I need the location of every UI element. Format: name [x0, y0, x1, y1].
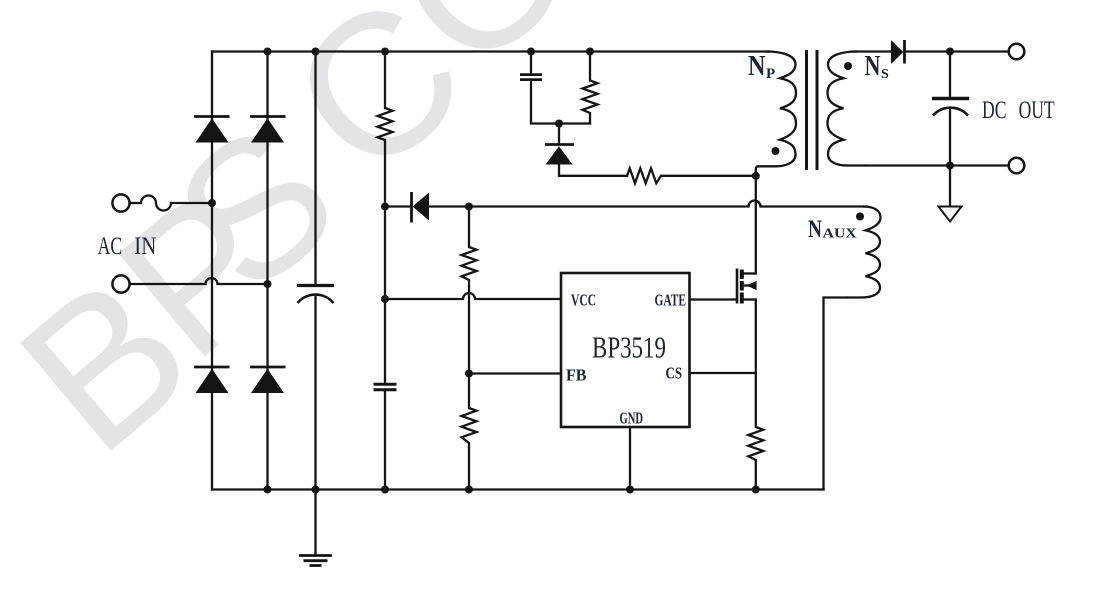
junction DC minus / output cap: [946, 162, 954, 170]
wire output cap lower: [949, 110, 951, 166]
wire bulk cap branch lower: [314, 297, 316, 490]
svg-text:IN: IN: [134, 233, 156, 260]
transformer primary winding Np: [756, 52, 796, 176]
phase dot aux: [856, 213, 864, 221]
wire bottom rail: [212, 488, 824, 490]
wire GATE line: [690, 298, 738, 300]
svg-text:N: N: [748, 51, 766, 82]
svg-text:DC: DC: [982, 97, 1007, 124]
svg-text:AC: AC: [98, 233, 123, 260]
wire CS line: [690, 372, 756, 374]
junction node FB: [465, 370, 473, 378]
junction node VCC rect anode: [381, 203, 389, 211]
wire aux bottom: [824, 298, 847, 490]
svg-text:N: N: [808, 216, 822, 243]
transformer core: [807, 50, 818, 170]
wire FB divider upper: [468, 207, 470, 490]
diode D5 VCC rectifier: [412, 192, 430, 223]
junction snubber RC / diode: [555, 120, 563, 128]
svg-text:VCC: VCC: [571, 291, 596, 310]
watermark BPS Co: [0, 0, 616, 495]
wire GND pin: [629, 427, 631, 490]
svg-text:N: N: [865, 51, 881, 82]
svg-text:P: P: [766, 66, 775, 82]
wire secondary diode to terminal: [905, 50, 1009, 52]
wire drain vertical: [755, 176, 757, 274]
wire secondary top lead: [855, 50, 892, 52]
svg-text:GATE: GATE: [655, 291, 687, 310]
junction top rail / startup resistor branch: [381, 48, 389, 56]
resistor R4 divider lower: [462, 408, 477, 443]
wire snubber to primary: [661, 175, 756, 177]
wire VCC line with hop: [385, 293, 561, 299]
terminal DC plus: [1009, 44, 1025, 60]
capacitor C4 output: [932, 99, 969, 116]
capacitor C2 snubber: [520, 75, 542, 80]
capacitor C3 VCC: [374, 384, 397, 390]
junction bottom rail / sense resistor: [752, 486, 760, 494]
wire left bridge branch: [211, 52, 213, 490]
junction top rail / bulk cap branch: [312, 48, 320, 56]
diode D7 output rectifier: [891, 40, 905, 64]
junction DC plus / output cap: [946, 48, 954, 56]
junction bottom rail / FB divider: [465, 486, 473, 494]
junction top rail / D2 branch: [264, 48, 272, 56]
resistor R6 snubber: [583, 81, 598, 114]
transistor Q1 MOSFET: [737, 269, 757, 304]
svg-text:AUX: AUX: [823, 226, 857, 241]
wire top rail: [212, 50, 769, 52]
diode D3 bridge bottom-left: [194, 367, 230, 393]
junction bottom rail / D4 branch: [264, 486, 272, 494]
transformer secondary winding Ns: [828, 52, 867, 166]
junction top rail / snubber cap branch: [527, 48, 535, 56]
wire bulk cap branch upper: [314, 52, 316, 286]
terminal DC minus: [1009, 158, 1025, 174]
diode D1 bridge top-left: [194, 117, 230, 143]
svg-text:CS: CS: [666, 364, 683, 383]
junction AC neutral / bridge right: [264, 280, 272, 288]
wire AC neutral with hop: [130, 278, 268, 284]
junction node drain / primary bottom: [752, 172, 760, 180]
wire AC line input: [130, 202, 142, 204]
phase dot primary: [772, 147, 780, 155]
ground primary: [299, 556, 332, 566]
wire snubber diode branch: [559, 124, 627, 176]
fuse F1: [141, 196, 171, 211]
wire FB line: [469, 372, 561, 374]
terminal AC neutral: [112, 275, 129, 292]
svg-text:OUT: OUT: [1019, 97, 1055, 124]
junction bottom rail / GND pin: [626, 486, 634, 494]
wire startup branch x=385: [384, 52, 386, 490]
wire output ground stub: [949, 166, 951, 207]
junction VCC line / startup branch: [381, 295, 389, 303]
diode D2 bridge top-right: [250, 117, 286, 143]
junction aux line / FB divider: [465, 203, 473, 211]
resistor R5 current sense: [748, 427, 763, 460]
terminal AC live: [112, 194, 129, 211]
resistor R1 startup: [378, 108, 393, 140]
wire secondary bottom rail: [866, 164, 1009, 166]
ground secondary: [939, 207, 962, 222]
wire second bridge branch: [266, 52, 268, 490]
junction bottom rail / VCC cap branch: [381, 486, 389, 494]
transformer aux winding Naux: [846, 207, 881, 298]
phase dot secondary: [844, 62, 852, 70]
wire ground stub: [314, 490, 316, 556]
diode D6 snubber: [545, 145, 574, 165]
svg-text:FB: FB: [566, 366, 587, 385]
wire snubber cap branch: [531, 52, 590, 124]
wire fuse to bridge: [171, 202, 212, 204]
resistor R3 divider upper: [462, 247, 477, 280]
wire snubber resistor branch: [589, 52, 591, 124]
wire output cap upper: [949, 52, 951, 99]
resistor R2 gate-series horizontal: [627, 168, 661, 183]
svg-text:BP3519: BP3519: [592, 330, 666, 365]
junction fuse / bridge left: [208, 199, 216, 207]
svg-text:S: S: [881, 67, 889, 82]
junction bottom rail / ground stub: [312, 486, 320, 494]
capacitor C1 bulk: [297, 286, 334, 304]
diode D4 bridge bottom-right: [250, 367, 286, 393]
wire D5 to aux with hop: [429, 201, 867, 207]
junction top rail / snubber resistor branch: [586, 48, 594, 56]
svg-text:GND: GND: [620, 409, 644, 428]
wire D5 anode: [385, 205, 411, 207]
wire source vertical: [755, 300, 757, 490]
IC U1 BP3519: [561, 273, 690, 427]
